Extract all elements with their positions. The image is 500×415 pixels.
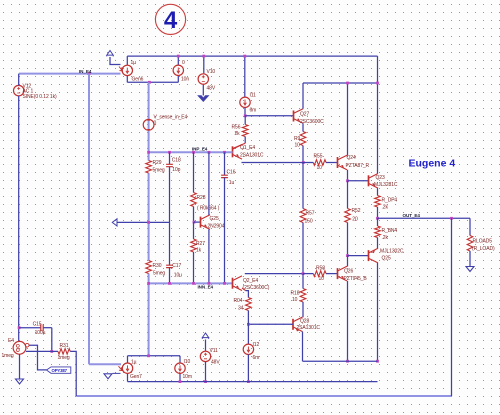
wire V+ corner down to Q23 collector	[377, 56, 379, 173]
svg-text:100µ: 100µ	[35, 330, 46, 336]
wire bottom rail	[128, 381, 378, 383]
svg-text:V10: V10	[207, 69, 216, 75]
node INN at C17	[168, 282, 171, 285]
capacitor C17 10u	[169, 222, 171, 265]
resistor R9 10	[300, 132, 306, 146]
node V+ junction	[376, 82, 379, 85]
resistor R27 1k	[193, 222, 195, 239]
svg-text:Q24: Q24	[347, 155, 356, 161]
wire Q2 collector to mirror row	[245, 273, 303, 275]
node Q28 base tap	[247, 323, 250, 326]
wire top loop right	[177, 56, 179, 65]
transistor Q23 MJL3281C	[368, 175, 370, 186]
transistor Q1_E4 2SA1301C	[232, 146, 234, 157]
svg-text:C15: C15	[33, 322, 42, 328]
wire compensation row y=222.4 with arrow	[117, 221, 170, 223]
svg-text:Q23: Q23	[376, 175, 385, 181]
wire INN_E4 bus	[149, 282, 233, 284]
node INP at C16	[223, 151, 226, 154]
node INN at R27	[192, 282, 195, 285]
svg-text:10p: 10p	[172, 167, 180, 173]
wire Q2 emitter to R04	[242, 288, 246, 291]
node INP at C18	[168, 151, 171, 154]
transistor Q26 PZT945_B	[337, 268, 339, 279]
wire G25 base stub	[194, 221, 201, 223]
svg-text:Gen7: Gen7	[130, 374, 142, 380]
node INN at G25 emitter	[208, 282, 211, 285]
svg-text:2k: 2k	[235, 131, 241, 137]
resistor R28 (R0k664)	[193, 152, 195, 192]
svg-text:2SA1301C: 2SA1301C	[297, 325, 321, 331]
transistor Q28 2SA1301C	[292, 319, 294, 330]
svg-text:E4: E4	[8, 338, 14, 344]
current source Gen6 1u	[122, 65, 132, 75]
resistor R52 20	[345, 209, 351, 223]
svg-text:R56: R56	[232, 124, 241, 130]
wire R18 to Q28 collector	[302, 302, 304, 317]
wire R9 to VAS row	[302, 146, 304, 163]
svg-text:150: 150	[305, 219, 313, 225]
wire driver rail y=83	[303, 82, 378, 84]
wire OUT_E4 row	[378, 217, 471, 219]
transistor Q24 PZTA87_R	[337, 157, 339, 168]
svg-text:10: 10	[317, 165, 323, 171]
wire Q24 emitter down to Q23 base node	[347, 170, 349, 181]
svg-text:1k: 1k	[196, 247, 202, 253]
wire V11 to bottom rail	[205, 362, 207, 382]
voltage source V10	[203, 56, 205, 73]
wire top loop bottom	[127, 81, 178, 83]
svg-text:6m: 6m	[253, 355, 260, 361]
capacitor C18 10p	[169, 152, 171, 164]
wire Q28 emitter down	[302, 332, 304, 362]
resistor R_BN4 .2k	[377, 218, 379, 226]
node neg rail at Q26	[346, 360, 349, 363]
resistor R_DP4 .2k	[375, 196, 381, 208]
voltage source V11 48V	[200, 351, 210, 361]
svg-text:R29: R29	[153, 160, 162, 166]
node rail at Q24	[346, 82, 349, 85]
svg-text:1meg: 1meg	[2, 353, 14, 359]
wire I11 to Q27 base node	[244, 108, 246, 116]
wire R52 to Q25 base node	[347, 223, 349, 256]
svg-text:PZTA87_R: PZTA87_R	[346, 163, 370, 169]
wire V12 top stub	[18, 74, 20, 86]
wire I12 column	[247, 324, 249, 344]
svg-text:R30: R30	[153, 263, 162, 269]
wire IN_E4 to Gen6 source	[89, 73, 121, 75]
resistor R18 10	[302, 274, 304, 289]
node INP at sense column	[147, 151, 150, 154]
wire Q27 base row	[245, 115, 293, 117]
voltage source V12	[14, 85, 24, 95]
wire Q27 collector up	[302, 83, 304, 109]
node OUT at load tap	[450, 217, 453, 220]
svg-text:RLOAD5: RLOAD5	[473, 238, 493, 244]
wire ground bus y=396	[76, 395, 451, 397]
svg-text:2N2904: 2N2904	[208, 223, 225, 229]
ground below E4	[16, 379, 24, 384]
wire red hook at Gen7	[119, 366, 123, 370]
current source I12 6m	[243, 344, 253, 354]
wire negative emitter row	[303, 360, 378, 362]
svg-text:(R_LOAD): (R_LOAD)	[472, 246, 495, 252]
wire Q23 emitter to R_DP4	[377, 188, 379, 195]
node G25 base	[193, 221, 196, 224]
svg-text:5meg: 5meg	[153, 270, 165, 276]
svg-text:Gen6: Gen6	[132, 76, 144, 82]
wire Q25 to negative rail row	[377, 263, 379, 361]
wire I12 to bottom rail	[247, 355, 249, 382]
resistor R30 5meg	[146, 261, 152, 274]
wire Q25 base row	[348, 255, 369, 257]
wire red hook at Gen6	[119, 67, 123, 72]
svg-text:10: 10	[292, 297, 298, 303]
svg-text:5meg: 5meg	[153, 167, 165, 173]
wire Q26 collector up	[347, 261, 349, 267]
ground arrow below V10	[198, 96, 209, 102]
power arrow top-left	[107, 51, 113, 56]
svg-text:1u: 1u	[229, 180, 235, 186]
svg-text:R9: R9	[294, 136, 301, 142]
current source I10 10m	[175, 363, 185, 373]
svg-text:G25: G25	[210, 216, 219, 222]
svg-text:Q27: Q27	[300, 111, 309, 117]
node R31 row at C15	[50, 350, 53, 353]
svg-text:Q26: Q26	[344, 268, 353, 274]
node Q23 base	[346, 179, 349, 182]
node V10 top	[202, 55, 205, 58]
node I11 top	[243, 55, 246, 58]
svg-text:V_sense_in_E4: V_sense_in_E4	[154, 114, 188, 120]
node INN at C16	[223, 282, 226, 285]
node Q27 base / R56 top	[244, 114, 247, 117]
svg-text:R18: R18	[291, 291, 300, 297]
wire V10 to ground arrow	[202, 85, 204, 96]
svg-text:I11: I11	[250, 93, 257, 99]
flag OPY387	[47, 367, 71, 373]
wire R_DP4 to OUT	[377, 207, 379, 218]
svg-text:R55: R55	[314, 153, 323, 159]
power arrow above V11	[202, 333, 208, 338]
svg-text:.2k: .2k	[382, 204, 389, 210]
wire input bypass vertical x=89	[88, 74, 90, 365]
capacitor C15 100u	[19, 327, 41, 329]
svg-text:10: 10	[295, 142, 301, 148]
wire E4 output to R31	[26, 350, 58, 352]
svg-text:INN_E4: INN_E4	[198, 285, 214, 290]
svg-text:C18: C18	[172, 157, 181, 163]
svg-text:10m: 10m	[183, 374, 192, 380]
wire RLOAD to ground	[469, 251, 471, 267]
svg-text:48V: 48V	[211, 360, 220, 366]
node OUT at emitter resistors	[376, 217, 379, 220]
svg-text:SINE(0 0.12 1k): SINE(0 0.12 1k)	[23, 94, 58, 100]
wire V12 bottom column to E4	[18, 96, 20, 342]
svg-text:6m: 6m	[250, 107, 257, 113]
svg-text:R_DP4: R_DP4	[382, 197, 398, 203]
wire Q23 base row	[348, 180, 369, 182]
wire VAS column	[302, 163, 304, 209]
svg-text:20: 20	[352, 217, 358, 223]
transistor G25 2N2904	[200, 217, 202, 228]
resistor RLOAD5 (R_LOAD)	[467, 236, 473, 252]
wire C15 drop to R31 row	[51, 328, 53, 352]
current source I 0 10n	[173, 65, 183, 75]
wire Q1 emitter row to Q24	[242, 162, 314, 164]
wire R27 to INN bus	[193, 252, 195, 283]
svg-text:R04: R04	[234, 298, 243, 304]
svg-text:I12: I12	[253, 342, 260, 348]
node INP at G25 collector	[208, 151, 211, 154]
wire input bypass to Gen7	[89, 363, 121, 365]
wire R_BN4 to Q25	[377, 238, 379, 249]
node sense column at loop top	[147, 354, 150, 357]
svg-text:C17: C17	[172, 263, 181, 269]
wire Q24 collector up	[347, 83, 349, 155]
svg-text:.2k: .2k	[382, 235, 389, 241]
node mirror row at x=303	[302, 272, 305, 275]
svg-text:OPY387: OPY387	[52, 368, 68, 373]
wire G25 emitter down to INN	[208, 229, 210, 283]
node bottom rail at I10	[179, 380, 182, 383]
resistor R29 5meg	[146, 161, 152, 174]
source E4 1meg	[13, 341, 26, 354]
svg-text:MJL3281C: MJL3281C	[374, 182, 398, 188]
node C15 tap	[18, 326, 21, 329]
svg-text:34: 34	[238, 305, 244, 311]
wire Q27 emitter to R9	[302, 123, 304, 131]
svg-text:2SA1301C: 2SA1301C	[240, 153, 264, 159]
wire from power arrow to Gen6	[110, 57, 121, 65]
title circle 4	[155, 4, 185, 34]
node compensation at sense column	[147, 221, 150, 224]
node bottom rail at V11	[204, 380, 207, 383]
wire OUT to RLOAD	[469, 218, 471, 235]
wire bottom current-source loop	[128, 355, 181, 357]
svg-text:MJL1302C: MJL1302C	[380, 248, 404, 254]
resistor R57 150	[300, 209, 306, 223]
resistor R58 10	[313, 271, 326, 277]
resistor R31 1meg	[58, 349, 70, 355]
source V_sense_in_E4	[143, 119, 154, 130]
svg-text:R57: R57	[306, 210, 315, 216]
current source Gen7 1u	[122, 363, 132, 373]
resistor R04 24	[246, 298, 252, 311]
svg-text:1meg: 1meg	[58, 355, 70, 361]
wire R04 to Q28 base node	[247, 311, 249, 325]
wire top current-source loop left	[126, 56, 128, 65]
node loop bottom to sense column	[148, 81, 151, 84]
svg-text:R31: R31	[60, 343, 69, 349]
svg-text:OUT_E4: OUT_E4	[403, 213, 421, 218]
node INN at sense column	[147, 282, 150, 285]
wire E4 bubble to flag	[29, 345, 47, 370]
wire IN_E4 from V12 to input net	[19, 73, 89, 75]
wire mirror row to Q26	[303, 273, 313, 275]
svg-text:Q28: Q28	[300, 318, 309, 324]
wire OUT load column	[451, 218, 453, 396]
current source I11	[244, 56, 246, 97]
node top bus at loop right	[177, 55, 180, 58]
svg-text:0: 0	[154, 120, 157, 126]
resistor R56 2k	[244, 116, 246, 125]
svg-text:10: 10	[319, 276, 325, 282]
svg-text:R28: R28	[197, 195, 206, 201]
transistor Q25 MJL1302C	[368, 250, 370, 261]
svg-text:R27: R27	[196, 241, 205, 247]
svg-text:10n: 10n	[181, 76, 189, 82]
capacitor C16 1u	[224, 152, 226, 175]
svg-text:0: 0	[182, 60, 185, 66]
wire Q24 column to R52	[347, 181, 349, 209]
ground at Gen7	[113, 372, 121, 374]
wire R31 to ground bus	[70, 351, 76, 396]
wire to Q26 collector	[347, 256, 349, 261]
resistor R55 10	[313, 160, 326, 166]
wire V11 top	[205, 340, 207, 352]
wire G25 collector up to INP	[208, 152, 210, 215]
svg-text:48V: 48V	[207, 86, 216, 92]
wire Q28 base row	[248, 323, 293, 325]
wire sense column x=148.6	[148, 82, 150, 160]
svg-text:Q25: Q25	[382, 256, 391, 262]
svg-text:IN_E4: IN_E4	[79, 69, 92, 74]
svg-text:INP_E4: INP_E4	[192, 146, 208, 151]
node VAS row x=303	[302, 161, 305, 164]
svg-text:Q2_E4: Q2_E4	[243, 278, 258, 284]
svg-text:10u: 10u	[174, 272, 182, 278]
node IN_E4	[88, 72, 91, 75]
svg-text:V11: V11	[210, 348, 219, 354]
wire R28 to G25 base node	[193, 207, 195, 223]
wire top supply bus	[127, 55, 377, 57]
node neg rail at Q25	[376, 360, 379, 363]
svg-text:R58: R58	[316, 266, 325, 272]
svg-text:R_BN4: R_BN4	[382, 228, 398, 234]
svg-text:1µ: 1µ	[131, 359, 137, 365]
transistor Q27 2SC3600C	[293, 111, 295, 122]
svg-text:1µ: 1µ	[131, 60, 137, 66]
svg-text:Eugene 4: Eugene 4	[409, 158, 456, 170]
node bottom rail at I12	[247, 380, 250, 383]
wire R56 to Q1 collector	[244, 137, 246, 144]
svg-text:I10: I10	[184, 359, 191, 365]
svg-text:Q1_E4: Q1_E4	[240, 145, 255, 151]
ground at RLOAD	[466, 267, 474, 272]
wire INP_E4 bus	[149, 151, 233, 153]
wire Q26 emitter down	[347, 281, 349, 361]
transistor Q2_E4 2SC3600C	[232, 278, 234, 289]
svg-text:4: 4	[164, 7, 178, 34]
wire E4 to ground	[19, 354, 21, 379]
svg-text:C16: C16	[227, 169, 236, 175]
node Q25 base	[346, 254, 349, 257]
svg-text:R52: R52	[352, 208, 361, 214]
node INP at R28	[192, 151, 195, 154]
